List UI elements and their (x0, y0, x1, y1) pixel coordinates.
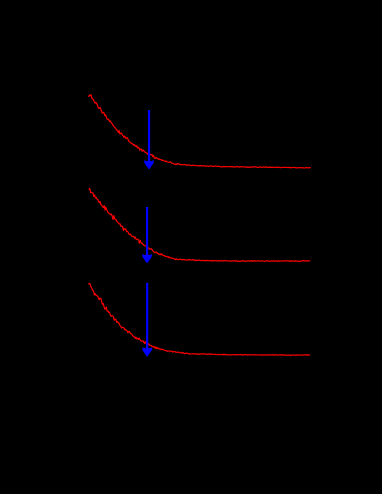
curve 2 (middle red decay) (89, 189, 310, 262)
arrow 3 shaft (blue) (146, 283, 148, 352)
arrow 2 shaft (blue) (146, 207, 148, 259)
arrow 1 shaft (blue) (148, 110, 150, 165)
arrowhead (144, 160, 154, 169)
curve 1 (top red decay) (89, 95, 311, 168)
curve 3 (bottom red decay) (89, 283, 310, 355)
arrowhead (142, 254, 152, 263)
arrowhead (142, 348, 152, 357)
